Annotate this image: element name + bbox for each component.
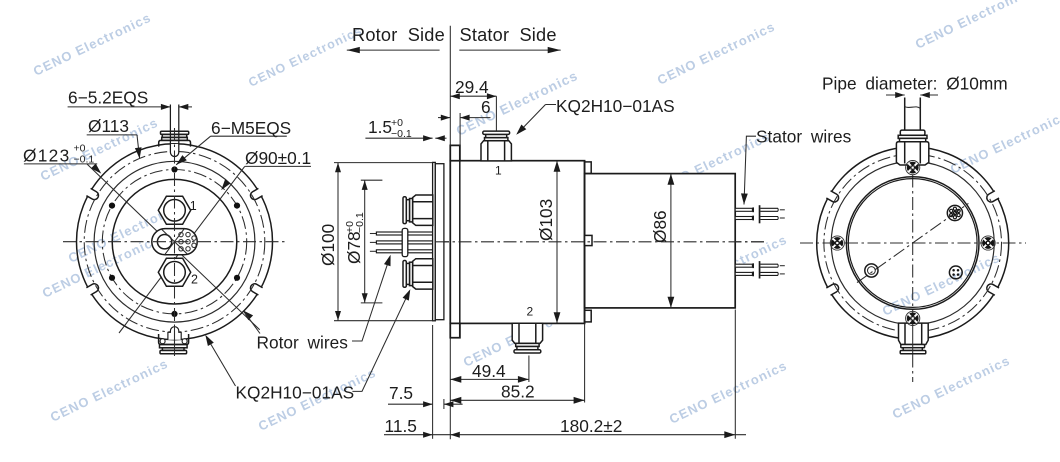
connector pin holes: [179, 232, 183, 236]
svg-text:1: 1: [190, 199, 197, 213]
dim D123 label: [23, 146, 70, 166]
side view horizontal centerline: [436, 241, 765, 243]
dim D78 +0/-0.1: [344, 212, 366, 264]
step tabs on D103 right edge: [585, 162, 592, 174]
ring connector circle: [865, 264, 878, 277]
bolt circle D90 (dash-dot): [102, 170, 246, 314]
svg-text:CENO Electronics: CENO Electronics: [655, 19, 778, 88]
dim D113 label: [88, 116, 129, 136]
right view horizontal centerline: [800, 242, 1026, 244]
right view vertical centerline: [912, 152, 914, 382]
dim D90 label: [245, 148, 311, 168]
clamp corner notches: [160, 339, 165, 344]
bottom clamp of right view: [899, 323, 929, 354]
svg-text:Stator Side: Stator Side: [460, 25, 557, 45]
wire group bars: [759, 205, 761, 223]
svg-text:6: 6: [481, 97, 491, 117]
svg-text:2: 2: [191, 273, 198, 287]
svg-text:Ø113: Ø113: [88, 116, 129, 136]
outer flange circle D123: [77, 144, 273, 340]
rotor wires: [370, 233, 377, 235]
labels Rotor Side / Stator Side: [352, 25, 557, 45]
svg-text:1: 1: [495, 164, 502, 178]
svg-text:Ø78: Ø78: [344, 231, 364, 264]
5.2 slot through top clamp: [171, 144, 179, 156]
bolt circle dash-dot: [824, 154, 1002, 332]
dim D103: [536, 199, 556, 241]
dim 6-5.2EQS: [68, 87, 148, 107]
keyhole slot through bottom clamp: [168, 327, 181, 340]
side view: [370, 26, 785, 439]
svg-text:2: 2: [527, 305, 534, 319]
outer housing circle: [817, 147, 1009, 339]
mesh vent circle: [947, 205, 962, 220]
horizontal centerline: [63, 241, 287, 243]
stator fitting 1 KQ2H10 (top): [481, 131, 511, 161]
hex fitting 2 (left view): [158, 258, 190, 286]
top clamp stack: [159, 131, 191, 146]
svg-text:180.2±2: 180.2±2: [560, 416, 622, 436]
diagonal segments through connector: [161, 229, 188, 255]
stator wires: [735, 208, 752, 211]
svg-text:Rotor Side: Rotor Side: [352, 25, 445, 45]
rotor-stator divider line: [449, 26, 451, 439]
svg-text:Ø86: Ø86: [650, 210, 670, 243]
svg-text:6−M5EQS: 6−M5EQS: [211, 118, 291, 138]
dots connector circle: [949, 266, 962, 279]
main body D103: [450, 161, 584, 324]
svg-text:Ø90±0.1: Ø90±0.1: [245, 148, 311, 168]
svg-text:Pipe diameter: Ø10mm: Pipe diameter: Ø10mm: [822, 73, 1008, 93]
svg-text:11.5: 11.5: [385, 416, 417, 436]
center connector (stadium): [152, 229, 197, 255]
dim 6-M5EQS label: [211, 118, 291, 138]
svg-text:CENO Electronics: CENO Electronics: [48, 356, 171, 425]
svg-text:CENO Electronics: CENO Electronics: [246, 23, 364, 89]
svg-text:29.4: 29.4: [455, 77, 489, 97]
rear cover double circle: [846, 177, 979, 310]
right view: stator end view: [800, 98, 1026, 383]
svg-text:Ø123: Ø123: [23, 146, 70, 166]
svg-text:KQ2H10−01AS: KQ2H10−01AS: [236, 383, 355, 403]
svg-text:Rotor wires: Rotor wires: [257, 333, 349, 353]
svg-text:KQ2H10−01AS: KQ2H10−01AS: [556, 96, 675, 116]
svg-text:1.5: 1.5: [368, 117, 392, 137]
svg-text:7.5: 7.5: [389, 383, 413, 403]
6x M5 bolt holes: [171, 166, 177, 172]
rotor wire retainer bar: [402, 228, 408, 256]
svg-text:6−5.2EQS: 6−5.2EQS: [68, 87, 148, 107]
rotor pneumatic fitting KQ2H10 cy=273.9: [403, 259, 433, 289]
rim circle: [94, 161, 255, 322]
bottom clamp stack: [159, 334, 189, 345]
rotor pneumatic fitting KQ2H10 cy=210.2: [403, 195, 433, 225]
svg-text:CENO Electronics: CENO Electronics: [667, 358, 790, 427]
svg-text:85.2: 85.2: [501, 382, 535, 402]
pipe (D10): [904, 98, 906, 131]
diagonal centerline NW-SE with leader arrows: [87, 164, 260, 330]
left view: rotor flange front view: [63, 105, 287, 357]
rotor plate A (D100 x1.5): [433, 162, 436, 320]
svg-text:CENO Electronics: CENO Electronics: [890, 353, 1013, 422]
bolt circle D113 (dash-dot): [84, 151, 265, 332]
svg-text:Ø103: Ø103: [536, 199, 556, 241]
D86 body: [585, 174, 736, 308]
rotor flange plate B: [435, 164, 444, 320]
svg-text:Stator wires: Stator wires: [756, 127, 852, 147]
centerline over body: [436, 241, 765, 243]
svg-text:CENO Electronics: CENO Electronics: [913, 0, 1036, 52]
hex fitting 1 (left view): [158, 196, 190, 224]
notches on outer circle: [985, 190, 1001, 204]
diagonal centerline NE-SW (leader of D90 label): [119, 166, 245, 333]
mid connector tab: [585, 235, 592, 245]
stator fitting 2 KQ2H10 (bottom): [512, 323, 542, 353]
svg-text:49.4: 49.4: [472, 361, 506, 381]
svg-text:CENO Electronics: CENO Electronics: [31, 10, 154, 79]
mounting notches on outer circle: [249, 187, 264, 201]
dim D86: [650, 210, 670, 243]
inner circle D78: [112, 179, 237, 304]
vertical centerline: [174, 128, 176, 356]
svg-text:CENO Electronics: CENO Electronics: [948, 108, 1060, 177]
right view diagonal centerline: [857, 203, 968, 282]
dim D100: [318, 224, 338, 266]
stator front collar: [450, 145, 460, 337]
svg-text:Ø100: Ø100: [318, 224, 338, 266]
top clamp of right view: [896, 130, 928, 165]
rim circle: [831, 162, 994, 325]
